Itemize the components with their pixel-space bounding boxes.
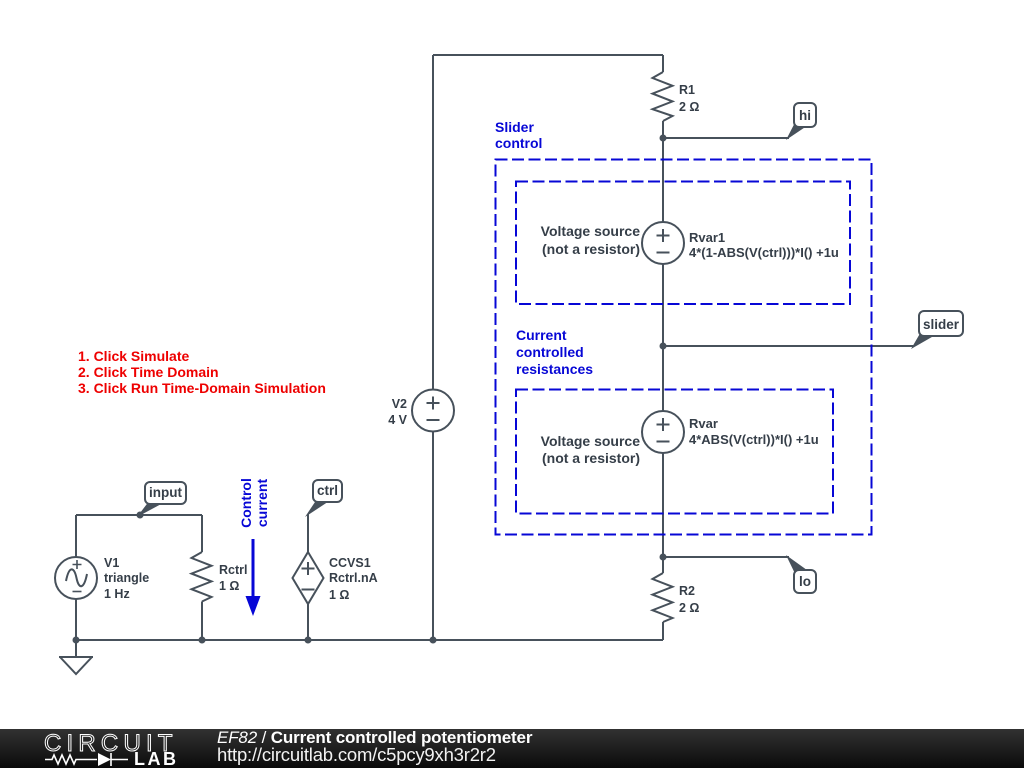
- svg-text:triangle: triangle: [104, 571, 149, 585]
- node hi flag: [786, 103, 816, 140]
- svg-text:ctrl: ctrl: [317, 483, 338, 498]
- ground: [59, 657, 93, 674]
- svg-text:LAB: LAB: [134, 749, 179, 768]
- wire left bus upper: [432, 55, 434, 390]
- annotation Voltage source (not a resistor) lower: [541, 433, 641, 466]
- svg-text:3. Click Run Time-Domain Simul: 3. Click Run Time-Domain Simulation: [78, 380, 326, 396]
- label V2: [388, 397, 407, 427]
- wire lo tap: [663, 556, 789, 558]
- annotation outer dashed box: [496, 160, 872, 535]
- svg-text:current: current: [254, 479, 270, 528]
- footer bar: [0, 729, 1024, 768]
- svg-text:1 Ω: 1 Ω: [219, 579, 239, 593]
- svg-text:Rvar1: Rvar1: [689, 230, 725, 245]
- node lo junction: [660, 554, 667, 561]
- annotation Voltage source (not a resistor) upper: [541, 223, 641, 257]
- voltage source V2: [412, 390, 454, 432]
- svg-text:Rctrl.nA: Rctrl.nA: [329, 571, 378, 585]
- node Rctrl bottom junction: [199, 637, 206, 644]
- node input flag: [137, 482, 186, 517]
- wire Rvar1 to slider node: [662, 264, 664, 411]
- node ctrl flag: [305, 480, 342, 517]
- node hi junction: [660, 135, 667, 142]
- label V1: [104, 556, 149, 601]
- svg-text:Rvar: Rvar: [689, 416, 718, 431]
- label Rvar1: [689, 230, 839, 260]
- svg-text:4*(1-ABS(V(ctrl)))*I() +1u: 4*(1-ABS(V(ctrl)))*I() +1u: [689, 245, 839, 260]
- wire slider tap: [663, 345, 914, 347]
- node ground junction: [73, 637, 80, 644]
- svg-text:V2: V2: [392, 397, 407, 411]
- svg-text:Rctrl: Rctrl: [219, 563, 247, 577]
- svg-text:(not a resistor): (not a resistor): [542, 450, 640, 466]
- wire Rctrl top stub: [201, 515, 203, 552]
- node CCVS1 bottom junction: [305, 637, 312, 644]
- node input junction: [137, 512, 144, 519]
- wire ctrl stub: [307, 514, 309, 552]
- svg-text:(not a resistor): (not a resistor): [542, 241, 640, 257]
- wire V1 bottom stub: [75, 599, 77, 640]
- wire hi tap: [663, 137, 789, 139]
- voltage source Rvar: [642, 411, 684, 453]
- annotation Control current vertical: [238, 478, 270, 528]
- svg-text:V1: V1: [104, 556, 119, 570]
- wire CCVS1 bottom stub: [307, 604, 309, 640]
- logo CircuitLab: [40, 729, 180, 768]
- annotation Current controlled resistances: [516, 327, 593, 377]
- svg-text:Voltage source: Voltage source: [541, 223, 641, 239]
- svg-text:controlled: controlled: [516, 344, 584, 360]
- wire V1 loop top: [76, 514, 202, 516]
- annotation blue arrow: [246, 539, 261, 616]
- wire R2 bottom stub: [662, 622, 664, 640]
- wire R1 top stub: [662, 55, 664, 72]
- svg-text:R1: R1: [679, 83, 695, 97]
- wire R1 to Rvar1: [662, 121, 664, 222]
- svg-text:1. Click Simulate: 1. Click Simulate: [78, 348, 189, 364]
- wire top horizontal: [433, 54, 663, 56]
- resistor R1: [653, 72, 673, 121]
- wire ground stub: [75, 640, 77, 657]
- label R1: [679, 83, 699, 114]
- svg-text:2 Ω: 2 Ω: [679, 100, 699, 114]
- svg-text:4 V: 4 V: [388, 413, 407, 427]
- node V2 bottom junction: [430, 637, 437, 644]
- svg-text:hi: hi: [799, 108, 811, 123]
- svg-text:4*ABS(V(ctrl))*I() +1u: 4*ABS(V(ctrl))*I() +1u: [689, 432, 819, 447]
- svg-text:slider: slider: [923, 317, 960, 332]
- label R2: [679, 584, 699, 615]
- wire Rctrl bottom stub: [201, 602, 203, 641]
- voltage source V1: [55, 557, 97, 599]
- svg-text:Current: Current: [516, 327, 567, 343]
- annotation Slider control: [495, 119, 542, 151]
- svg-text:2 Ω: 2 Ω: [679, 601, 699, 615]
- svg-text:resistances: resistances: [516, 361, 593, 377]
- svg-text:R2: R2: [679, 584, 695, 598]
- wire Rvar to R2: [662, 453, 664, 573]
- svg-text:1 Hz: 1 Hz: [104, 587, 130, 601]
- annotation inner dashed box upper: [516, 182, 850, 305]
- svg-text:Slider: Slider: [495, 119, 534, 135]
- svg-text:control: control: [495, 135, 542, 151]
- annotation inner dashed box lower: [516, 390, 833, 514]
- resistor R2: [653, 573, 673, 622]
- svg-text:input: input: [149, 485, 182, 500]
- svg-text:Voltage source: Voltage source: [541, 433, 641, 449]
- label Rctrl: [219, 563, 247, 593]
- node lo flag: [786, 555, 816, 593]
- wire left bus lower: [432, 432, 434, 641]
- voltage source Rvar1: [642, 222, 684, 264]
- svg-text:lo: lo: [799, 574, 811, 589]
- svg-text:CCVS1: CCVS1: [329, 556, 371, 570]
- svg-text:1 Ω: 1 Ω: [329, 588, 349, 602]
- svg-text:2. Click Time Domain: 2. Click Time Domain: [78, 364, 219, 380]
- node slider junction: [660, 343, 667, 350]
- node slider flag: [911, 311, 963, 349]
- svg-text:Control: Control: [238, 478, 254, 528]
- label Rvar: [689, 416, 819, 447]
- label CCVS1: [329, 556, 378, 602]
- wire V1 top stub: [75, 515, 77, 557]
- annotation red instructions: [78, 348, 326, 396]
- CCVS1 current-controlled voltage source: [293, 552, 324, 604]
- resistor Rctrl: [192, 552, 212, 602]
- wire bottom rail: [76, 639, 663, 641]
